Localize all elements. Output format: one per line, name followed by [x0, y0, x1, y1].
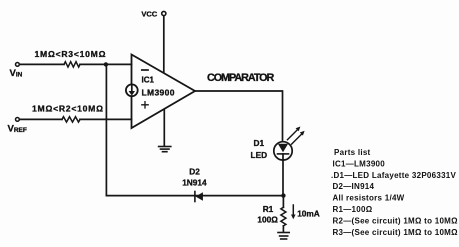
ground (R1): [278, 233, 289, 240]
wire VIN to R3: [19, 63, 64, 65]
resistor R3: [64, 62, 80, 67]
svg-text:LM3900: LM3900: [142, 87, 175, 97]
ground (op-amp): [159, 147, 171, 152]
node B junction dot: [281, 193, 285, 197]
node VIN terminal: [16, 63, 20, 67]
wire R1 to ground: [282, 226, 284, 232]
svg-text:All resistors 1/4W: All resistors 1/4W: [333, 194, 405, 203]
node VREF terminal: [16, 118, 20, 122]
parts list text block: [331, 148, 458, 237]
wire R2 to op-amp plus input: [80, 118, 132, 120]
svg-text:LED: LED: [251, 150, 268, 160]
wire R3 to op-amp minus input: [80, 63, 132, 65]
svg-text:D2—IN914: D2—IN914: [333, 182, 375, 191]
svg-text:IC1: IC1: [142, 76, 155, 85]
svg-text:10mA: 10mA: [297, 209, 320, 219]
svg-text:VCC: VCC: [141, 9, 157, 18]
current arrow 10mA: [291, 205, 296, 219]
LED light arrow 2: [292, 131, 305, 144]
svg-text:D2: D2: [189, 166, 200, 176]
op-amp minus sign: [142, 69, 148, 71]
svg-text:1N914: 1N914: [182, 178, 207, 188]
current source symbol inside op-amp: [126, 84, 138, 96]
wire op-amp ground pin: [163, 110, 165, 146]
svg-text:R1—100Ω: R1—100Ω: [333, 205, 373, 214]
svg-text:Parts list: Parts list: [334, 148, 371, 157]
svg-text:R1: R1: [263, 204, 274, 214]
svg-text:R2—(See circuit) 1MΩ to 10MΩ: R2—(See circuit) 1MΩ to 10MΩ: [333, 216, 459, 225]
svg-text:R3—(See circuit) 1MΩ to 10MΩ: R3—(See circuit) 1MΩ to 10MΩ: [333, 228, 459, 237]
resistor R1: [281, 207, 286, 226]
op-amp U1 triangle: [132, 55, 196, 129]
wire feedback horizontal to D2 and output node: [106, 195, 283, 197]
svg-text:IC1—LM3900: IC1—LM3900: [333, 159, 386, 168]
svg-text:100Ω: 100Ω: [257, 214, 278, 224]
diode D2: [195, 192, 203, 202]
wire feedback vertical: [105, 64, 107, 195]
wire op-amp output: [195, 91, 283, 142]
svg-text:1MΩ<R2<10MΩ: 1MΩ<R2<10MΩ: [32, 103, 104, 113]
svg-text:D1: D1: [254, 138, 265, 148]
LED light arrow 1: [287, 127, 300, 140]
node junction A (feedback tap): [104, 62, 108, 66]
svg-text:1MΩ<R3<10MΩ: 1MΩ<R3<10MΩ: [35, 49, 107, 59]
svg-text:COMPARATOR: COMPARATOR: [207, 72, 275, 84]
wire VREF to R2: [19, 118, 62, 120]
wire LED cathode to node B: [282, 154, 284, 196]
node VCC terminal: [162, 11, 166, 15]
wire VCC to op-amp top edge: [163, 16, 165, 72]
LED D1: [274, 142, 292, 160]
resistor R2: [62, 117, 80, 122]
wire node B to R1: [282, 196, 284, 208]
svg-text:.D1—LED Lafayette 32P06331V: .D1—LED Lafayette 32P06331V: [331, 171, 457, 180]
op-amp plus sign: [142, 102, 148, 108]
